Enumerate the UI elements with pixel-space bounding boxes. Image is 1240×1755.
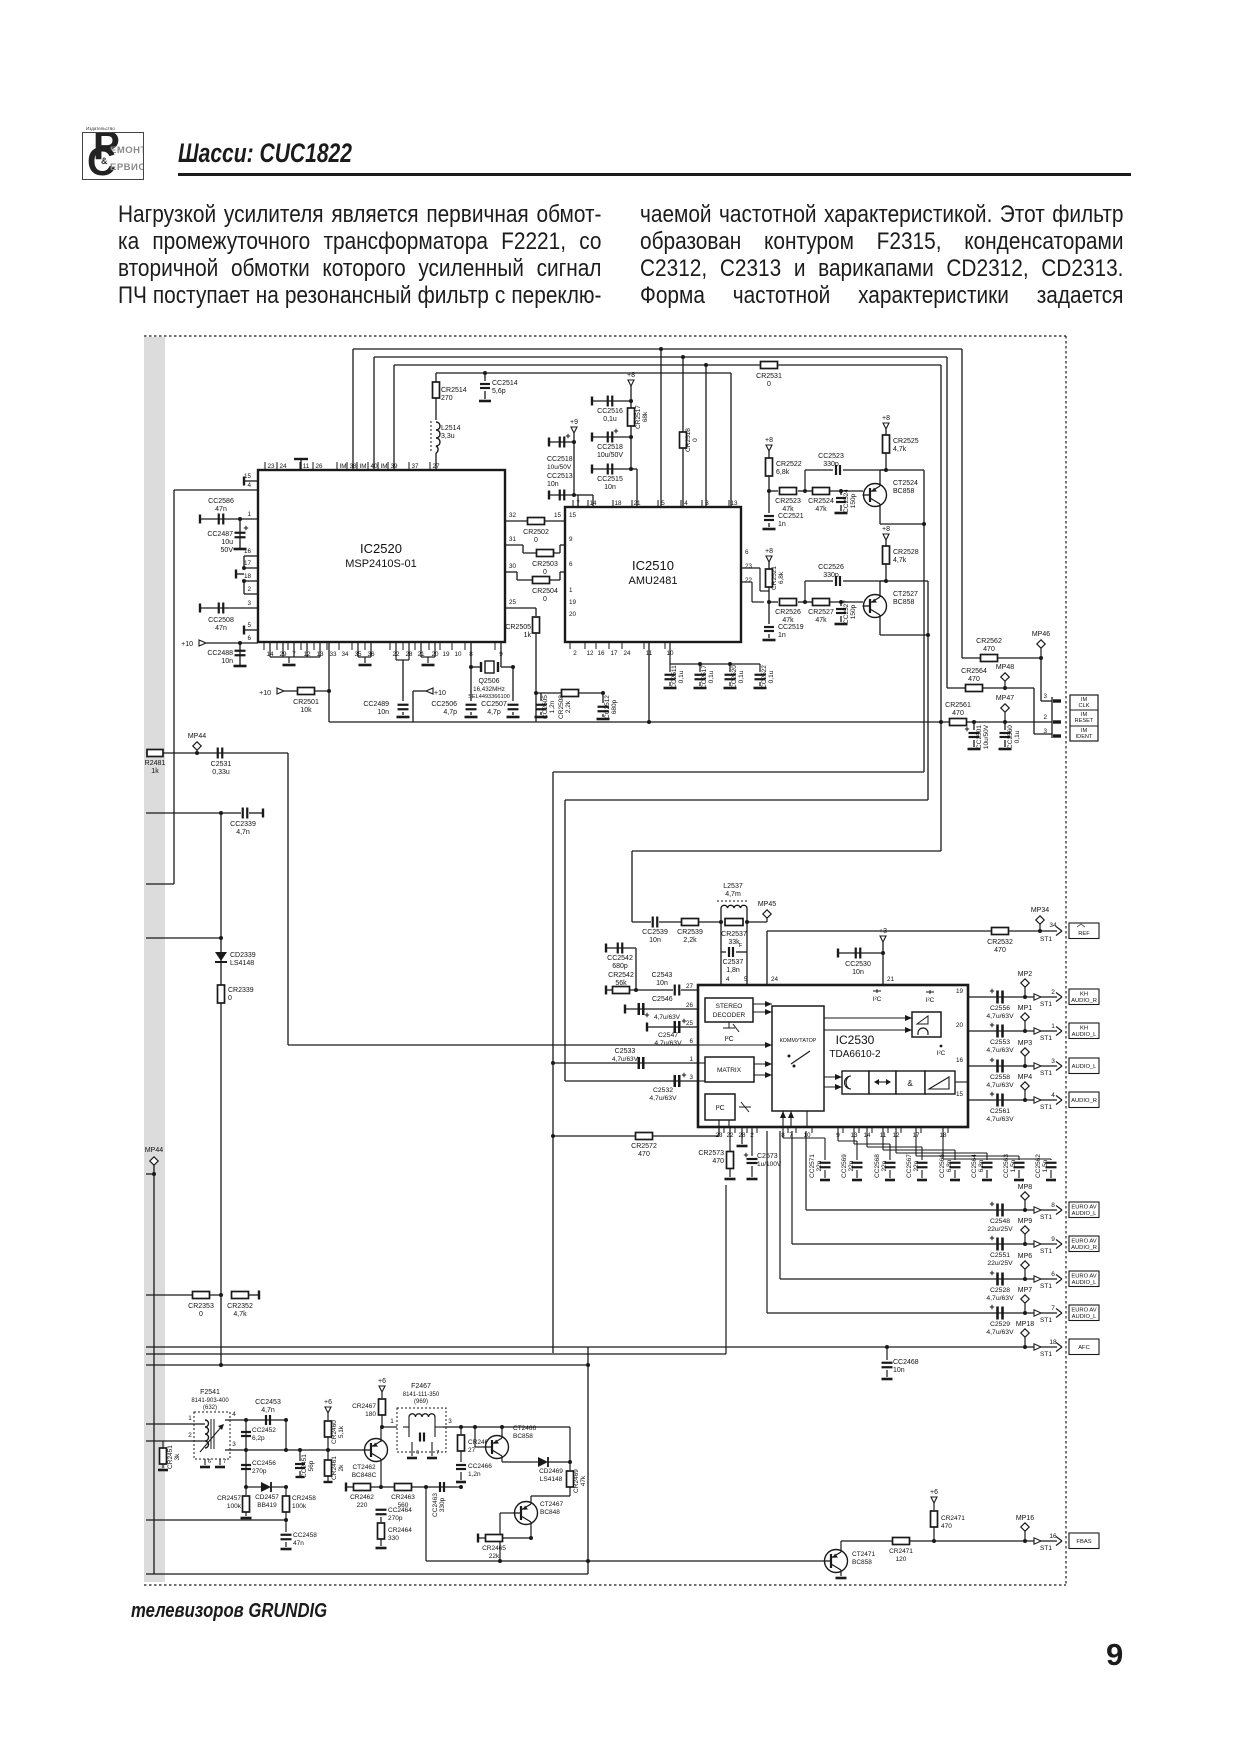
transistor CT2471 BC858 [825, 1550, 848, 1573]
ground pin28 [741, 1127, 743, 1144]
capacitor C2553 4,7u/63V [996, 1025, 999, 1038]
svg-text:CR2469: CR2469 [573, 1469, 580, 1493]
capacitor CC2463 330p [424, 1485, 428, 1489]
wire IC2530 pin to CC2571 [782, 1127, 784, 1138]
capacitor CC2568 22n [885, 1162, 896, 1164]
svg-text:4,7u/63V: 4,7u/63V [612, 1056, 639, 1063]
resistor CR2502 0 [505, 520, 565, 522]
svg-text:47k: 47k [782, 617, 794, 624]
svg-text:CR2505: CR2505 [505, 624, 531, 631]
svg-text:3: 3 [1051, 1058, 1055, 1065]
inductor L2537 4.7m [699, 921, 721, 923]
port box REF [1069, 923, 1099, 939]
svg-text:10k: 10k [300, 707, 312, 714]
svg-text:CR2522: CR2522 [776, 461, 802, 468]
svg-text:4: 4 [726, 976, 730, 983]
svg-text:CR2537: CR2537 [721, 931, 747, 938]
svg-text:3: 3 [1043, 693, 1047, 700]
capacitor CC2567 22n [917, 1162, 928, 1164]
capacitor CC2514 5.6p [483, 371, 487, 375]
capacitor CC2458 47n [285, 1520, 287, 1532]
capacitor CC2453 4.7n [265, 1415, 267, 1425]
svg-text:+10: +10 [434, 690, 446, 697]
connector pin 3 ST1 [1034, 1063, 1041, 1069]
svg-text:SEL4493366100: SEL4493366100 [468, 694, 510, 700]
svg-text:0: 0 [199, 1311, 203, 1318]
wire row 1520 [146, 1519, 286, 1521]
svg-text:14: 14 [589, 500, 597, 507]
svg-text:0,1u: 0,1u [738, 670, 745, 683]
svg-text:CR2518: CR2518 [685, 428, 692, 452]
port box EURO AV/AUDIO_L [1069, 1202, 1099, 1218]
capacitor C2543 10n [630, 989, 673, 991]
connector pin 8 ST1 [1034, 1207, 1041, 1213]
svg-text:47k: 47k [815, 617, 827, 624]
wire pin4 left frame [174, 489, 258, 491]
svg-text:10: 10 [454, 651, 462, 658]
svg-text:EURO AV: EURO AV [1071, 1205, 1096, 1211]
svg-text:MP44: MP44 [188, 733, 206, 740]
svg-text:330: 330 [388, 1535, 399, 1542]
kommutator block [772, 1006, 824, 1111]
wire CC2515 to pin21 [631, 468, 637, 470]
capacitor CC2512 680p [601, 691, 605, 695]
svg-text:MP46: MP46 [1032, 631, 1050, 638]
svg-text:680p: 680p [612, 963, 628, 970]
svg-text:+10: +10 [181, 641, 193, 648]
svg-text:MATRIX: MATRIX [717, 1067, 742, 1074]
wire pin4 to margin [146, 883, 174, 885]
svg-text:L2514: L2514 [441, 425, 461, 432]
collector wire CT2524 BC858 [879, 470, 881, 486]
headphone output block [912, 1012, 941, 1037]
svg-text:CC2515: CC2515 [597, 476, 623, 483]
svg-text:+8: +8 [765, 548, 773, 555]
wire bottom rail [146, 1573, 588, 1575]
schematic frame right dotted border [1065, 336, 1067, 1585]
resistor CR2531 0 [761, 362, 778, 369]
svg-text:+6: +6 [378, 1378, 386, 1385]
svg-text:10n: 10n [547, 481, 559, 488]
schematic frame bottom dotted border [144, 1584, 1066, 1586]
svg-text:5: 5 [247, 622, 251, 629]
transistor CT2466 BC858 [486, 1436, 509, 1459]
svg-text:MP4: MP4 [1018, 1074, 1033, 1081]
svg-text:CR2508: CR2508 [558, 695, 565, 719]
capacitor C2537 1.8n [720, 922, 722, 952]
resistor CR2521 6,8k [766, 569, 773, 587]
IC2520 bottom pin labels [263, 642, 265, 650]
resistor CR2527 47k [798, 601, 812, 603]
collector wire CT2467 [530, 1496, 532, 1504]
supply +8 for CT2527 BC858 [766, 556, 772, 562]
svg-text:270p: 270p [388, 1515, 403, 1522]
svg-text:CC2520: CC2520 [731, 665, 738, 689]
svg-text:CR2457: CR2457 [217, 1495, 241, 1502]
svg-text:MP1: MP1 [1018, 1005, 1033, 1012]
wire IC2530 pin to CC2568 [853, 1127, 855, 1144]
wires to IC2530 pins 4 5 [720, 952, 722, 985]
svg-text:CR2451: CR2451 [167, 1445, 174, 1469]
IM CLK RESET IDENT table [1070, 695, 1098, 741]
svg-text:ST1: ST1 [1040, 1001, 1052, 1008]
svg-text:47k: 47k [782, 506, 794, 513]
wire IC2530 pin to CC2563 [915, 1127, 917, 1156]
svg-text:4,7u/63V: 4,7u/63V [654, 1014, 681, 1021]
schematic frame top dotted border [144, 335, 1066, 337]
svg-text:47k: 47k [815, 506, 827, 513]
decoder to kommutator arrows [753, 1003, 772, 1005]
svg-text:3k: 3k [174, 1453, 181, 1461]
emitter wire CT2524 BC858 [879, 504, 881, 524]
supply +6 resistor CR2460 5.1k [325, 1407, 331, 1413]
wire base long [426, 1560, 824, 1562]
I2C wires from block [718, 1120, 720, 1127]
resistor CR2572 470 [553, 1135, 719, 1137]
svg-text:3: 3 [247, 600, 251, 607]
svg-text:20: 20 [569, 611, 577, 618]
wire IC2530 pin to CC2564 [895, 1127, 897, 1153]
svg-text:CLK: CLK [1079, 703, 1090, 709]
svg-text:CC2505: CC2505 [542, 695, 549, 719]
test point MP6 [1021, 1261, 1029, 1269]
svg-text:0,1u: 0,1u [678, 670, 685, 683]
pin 5 stub [244, 629, 258, 631]
svg-text:220: 220 [357, 1502, 368, 1509]
capacitor CC2452 6.2p [244, 1418, 248, 1422]
svg-text:12: 12 [586, 650, 594, 657]
wire pin6 audio input [288, 1044, 698, 1046]
bus1 drop to CR2562 [961, 349, 963, 658]
svg-text:100k: 100k [227, 1503, 242, 1510]
connector pin 6 ST1 [1034, 1276, 1041, 1282]
processing blocks row [842, 1071, 869, 1094]
capacitor CC2524 150p [830, 490, 863, 492]
svg-text:REF: REF [1078, 931, 1090, 937]
svg-text:IM: IM [360, 463, 367, 470]
wire row 1354 [146, 1353, 726, 1355]
ground pin top of IC2520 [300, 459, 302, 470]
svg-text:1: 1 [390, 1418, 394, 1425]
footer caption [131, 1600, 327, 1623]
svg-text:4: 4 [232, 1411, 236, 1418]
svg-text:MP8: MP8 [1018, 1184, 1033, 1191]
svg-text:0: 0 [767, 381, 771, 388]
svg-text:CC2514: CC2514 [492, 380, 518, 387]
svg-text:4,7k: 4,7k [893, 446, 907, 453]
resistor CR2542 56k [606, 989, 612, 991]
svg-text:4,7k: 4,7k [233, 1311, 247, 1318]
svg-text:22k: 22k [489, 1553, 500, 1560]
svg-text:I²C: I²C [926, 997, 935, 1004]
svg-text:0,33u: 0,33u [212, 769, 230, 776]
svg-text:34: 34 [1049, 922, 1057, 929]
wire IC2510 pin11 trace [648, 722, 650, 730]
svg-text:(632): (632) [203, 1405, 217, 1411]
svg-text:I²C: I²C [873, 996, 882, 1003]
svg-text:ST1: ST1 [1040, 1317, 1052, 1324]
svg-text:21: 21 [633, 500, 641, 507]
svg-text:CC2519: CC2519 [778, 624, 804, 631]
svg-text:4,7n: 4,7n [261, 1407, 275, 1414]
svg-text:C2561: C2561 [990, 1108, 1010, 1115]
wire node down left [220, 813, 222, 1365]
svg-text:0,1u: 0,1u [708, 670, 715, 683]
svg-text:F2541: F2541 [200, 1389, 220, 1396]
svg-text:CC2464: CC2464 [388, 1507, 412, 1514]
svg-text:1,5n: 1,5n [1042, 1159, 1049, 1172]
svg-text:330p: 330p [823, 461, 839, 468]
test point MP2 [1021, 979, 1029, 987]
resistor CR2466 27 [460, 1427, 462, 1434]
svg-text:1,5n: 1,5n [1010, 1159, 1017, 1172]
svg-text:470: 470 [968, 676, 980, 683]
svg-text:EURO AV: EURO AV [1071, 1239, 1096, 1245]
svg-text:C2533: C2533 [615, 1048, 636, 1055]
svg-text:CR2460: CR2460 [331, 1420, 338, 1444]
svg-text:8141-111-350: 8141-111-350 [403, 1392, 440, 1398]
svg-text:CC2507: CC2507 [481, 701, 507, 708]
svg-text:21: 21 [887, 976, 895, 983]
svg-text:9: 9 [1051, 1236, 1055, 1243]
svg-text:LS4148: LS4148 [230, 960, 254, 967]
wire audio row pin 15 [968, 1099, 1057, 1101]
IC U2520 MSP2410S-01 [258, 470, 505, 642]
kommutator to headphone arrows [824, 1017, 912, 1019]
svg-text:C2548: C2548 [990, 1218, 1010, 1225]
svg-text:CR2467: CR2467 [352, 1403, 376, 1410]
svg-text:15: 15 [956, 1091, 964, 1098]
svg-text:120: 120 [896, 1556, 907, 1563]
svg-text:6: 6 [745, 549, 749, 556]
svg-text:CC2506: CC2506 [431, 701, 457, 708]
svg-text:CC2501: CC2501 [976, 725, 983, 749]
svg-text:16,432MHz: 16,432MHz [473, 686, 505, 693]
emitter run CT2524 [880, 523, 924, 525]
svg-text:BC858: BC858 [893, 599, 915, 606]
test point MP9 [1021, 1226, 1029, 1234]
port box AUDIO_L [1069, 1058, 1099, 1074]
svg-text:17: 17 [610, 650, 618, 657]
capacitor C2531 0.33u [217, 748, 219, 759]
capacitor CC2501 10u 50V [972, 720, 976, 724]
svg-text:AUDIO_R: AUDIO_R [1071, 1098, 1097, 1104]
svg-text:CR2462: CR2462 [350, 1494, 374, 1501]
svg-text:CC2560: CC2560 [1007, 725, 1014, 749]
pins 16-17 bracket [244, 555, 258, 557]
emitter ground CT2471 [840, 1570, 842, 1576]
svg-text:22n: 22n [816, 1160, 823, 1171]
switch symbol [788, 1055, 791, 1058]
svg-text:CR2532: CR2532 [987, 939, 1013, 946]
svg-text:C2537: C2537 [723, 959, 744, 966]
svg-text:26: 26 [686, 1002, 694, 1009]
wire riser to base line [587, 1347, 589, 1574]
svg-text:47n: 47n [215, 506, 227, 513]
svg-text:470: 470 [994, 947, 1006, 954]
svg-text:4: 4 [684, 500, 688, 507]
resistor CR2523 47k [769, 490, 778, 492]
svg-text:КОММУТАТОР: КОММУТАТОР [780, 1038, 817, 1044]
wire pin23 of IC2510 to cluster [741, 567, 760, 569]
svg-text:BC858: BC858 [852, 1559, 872, 1566]
inductor L2514 3.3u [436, 422, 440, 453]
pin 15 stub [244, 480, 258, 482]
svg-text:MP48: MP48 [996, 664, 1014, 671]
svg-text:C2532: C2532 [653, 1087, 673, 1094]
svg-text:C2556: C2556 [990, 1005, 1010, 1012]
resistor CR2352 4.7k [232, 1292, 249, 1299]
connector pin 4 ST1 [1034, 1097, 1041, 1103]
svg-text:CC2526: CC2526 [818, 564, 844, 571]
svg-text:5: 5 [661, 500, 665, 507]
svg-text:4,7u/63V: 4,7u/63V [986, 1013, 1014, 1020]
svg-text:15: 15 [554, 512, 562, 519]
svg-text:MP7: MP7 [1018, 1287, 1033, 1294]
wire pin22 of IC2510 to cluster [741, 581, 752, 583]
svg-text:22u/25V: 22u/25V [987, 1260, 1013, 1267]
svg-text:ST1: ST1 [1040, 1283, 1052, 1290]
supply +8 top [628, 380, 634, 386]
svg-text:4,7u/63V: 4,7u/63V [986, 1295, 1014, 1302]
svg-text:CD2339: CD2339 [230, 952, 256, 959]
wire collector run1 to audio input [553, 771, 924, 773]
svg-text:MP16: MP16 [1016, 1515, 1034, 1522]
port box EURO AV/AUDIO_L [1069, 1271, 1099, 1287]
svg-text:&: & [907, 1079, 913, 1088]
svg-text:TDA6610-2: TDA6610-2 [829, 1049, 881, 1060]
svg-text:CR2504: CR2504 [532, 588, 558, 595]
svg-text:MP18: MP18 [1016, 1321, 1034, 1328]
svg-text:32: 32 [509, 512, 517, 519]
svg-text:CR2527: CR2527 [808, 609, 834, 616]
collector wire CT2466 [501, 1427, 503, 1438]
svg-text:150p: 150p [850, 604, 857, 619]
bus wire 3 [394, 364, 941, 366]
wire riser x=780 [779, 1131, 781, 1279]
svg-text:2: 2 [1051, 989, 1055, 996]
svg-text:AUDIO_R: AUDIO_R [1071, 998, 1097, 1004]
svg-text:50V: 50V [221, 547, 234, 554]
svg-text:18: 18 [614, 500, 622, 507]
svg-text:FBAS: FBAS [1076, 1539, 1091, 1545]
capacitor CC2513 10n [549, 494, 578, 496]
port box EURO AV/AUDIO_R [1069, 1236, 1099, 1252]
svg-text:68k: 68k [642, 411, 649, 422]
test point MP1 [1021, 1013, 1029, 1021]
port box FBAS [1069, 1533, 1099, 1549]
svg-text:CR2463: CR2463 [391, 1494, 415, 1501]
svg-text:CR2339: CR2339 [228, 987, 254, 994]
resistor CR2469 47k [569, 1462, 571, 1470]
connector pin 7 ST1 [1034, 1310, 1041, 1316]
capacitor C2573 1u 100V [751, 1127, 753, 1156]
svg-text:CR2501: CR2501 [293, 699, 319, 706]
resistor R2481 1k [146, 752, 288, 754]
svg-text:56p: 56p [308, 1460, 315, 1471]
port box AUDIO_R [1069, 1092, 1099, 1108]
svg-text:4,7m: 4,7m [725, 891, 741, 898]
svg-text:5,1k: 5,1k [338, 1425, 345, 1438]
test point MP45 [747, 921, 767, 923]
F2541 pin3 wire [225, 1449, 366, 1451]
svg-text:470: 470 [941, 1523, 952, 1530]
svg-text:1: 1 [188, 1415, 192, 1422]
svg-text:8: 8 [1051, 1202, 1055, 1209]
svg-text:4,7u/63V: 4,7u/63V [986, 1082, 1014, 1089]
svg-text:4,7p: 4,7p [443, 709, 457, 716]
wire pin13 down [328, 642, 330, 722]
svg-text:0: 0 [543, 569, 547, 576]
svg-text:IC2520: IC2520 [360, 541, 402, 556]
svg-text:C2551: C2551 [990, 1252, 1010, 1259]
svg-text:13: 13 [730, 500, 738, 507]
wire riser CR2469 [569, 1427, 571, 1462]
svg-text:37: 37 [411, 463, 419, 470]
svg-text:CC2512: CC2512 [604, 695, 611, 719]
svg-text:CC2518: CC2518 [597, 444, 623, 451]
resistor CR2528 4,7k collector load [883, 534, 889, 540]
page number 9 [1106, 1637, 1123, 1673]
svg-text:CC2568: CC2568 [874, 1154, 881, 1178]
svg-text:CR2471: CR2471 [889, 1548, 913, 1555]
long wire bottom of IC area [329, 721, 1052, 723]
crystal Q2506 16.432MHz [470, 642, 472, 701]
wire pin3 F2467 [443, 1426, 570, 1428]
wire IC2530 pin to CC2566 [882, 1127, 884, 1150]
svg-text:4,7n: 4,7n [236, 829, 250, 836]
svg-text:L2537: L2537 [723, 883, 743, 890]
transistor CT2462 BC848C [365, 1439, 388, 1462]
resistor CR2537 33k [725, 919, 743, 926]
svg-text:CC2511: CC2511 [671, 665, 678, 689]
test point MP7 [1021, 1295, 1029, 1303]
capacitor CC2456 270p [245, 1450, 247, 1487]
stereo decoder block [705, 998, 753, 1022]
ground bracket pins 14-13 [269, 642, 271, 657]
svg-text:CC2522: CC2522 [761, 665, 768, 689]
capacitor CC2466 1.2n [456, 1464, 466, 1466]
svg-text:C2547: C2547 [658, 1032, 678, 1039]
IC2510 bottom pin labels [569, 642, 571, 649]
svg-text:ST1: ST1 [1040, 1351, 1052, 1358]
svg-text:CR2523: CR2523 [775, 498, 801, 505]
svg-text:CR2471: CR2471 [941, 1515, 965, 1522]
resistor CR2464 330 [380, 1517, 382, 1522]
svg-text:CR2521: CR2521 [771, 566, 778, 590]
svg-text:150p: 150p [850, 493, 857, 508]
svg-text:22n: 22n [881, 1160, 888, 1171]
svg-text:C2528: C2528 [990, 1287, 1010, 1294]
svg-text:BC848C: BC848C [352, 1472, 377, 1479]
svg-text:47n: 47n [293, 1540, 304, 1547]
svg-text:6,8k: 6,8k [778, 571, 785, 584]
svg-text:C2553: C2553 [990, 1039, 1010, 1046]
F2467 ground pins 6 7 [411, 1442, 413, 1456]
svg-text:2k: 2k [338, 1464, 345, 1472]
svg-text:6: 6 [247, 635, 251, 642]
svg-text:EURO AV: EURO AV [1071, 1274, 1096, 1280]
svg-text:KH: KH [1080, 992, 1088, 998]
transistor CT2524 BC858 [864, 484, 887, 507]
svg-text:I²C: I²C [715, 1105, 724, 1112]
svg-text:1,2n: 1,2n [468, 1471, 481, 1478]
wire riser x=806 [805, 1131, 807, 1210]
capacitor CC2505 1.2n [536, 692, 603, 694]
svg-text:4,7u/63V: 4,7u/63V [986, 1116, 1014, 1123]
resistor CR2561 470 [950, 719, 967, 726]
svg-text:CR2353: CR2353 [188, 1303, 214, 1310]
